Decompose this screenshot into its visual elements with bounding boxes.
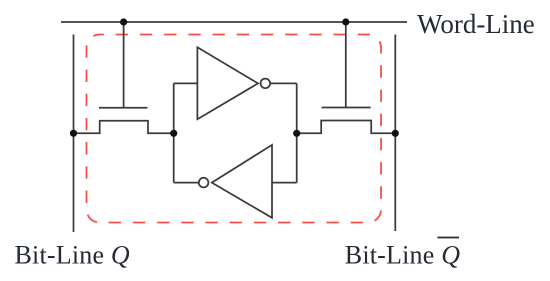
- wire inverter U1 input: [174, 82, 198, 84]
- word line: [61, 21, 407, 23]
- cell outline (red dashed rounded rect): [87, 35, 382, 223]
- wire inverter U2 output: [174, 182, 199, 184]
- junction word-line/M1 gate: [120, 18, 127, 25]
- transistor M2 gate wire: [345, 22, 347, 108]
- svg-text:Bit-Line Q: Bit-Line Q: [345, 241, 460, 270]
- transistor M2 channel + source/drain wires: [297, 121, 396, 134]
- inverter U1 triangle: [197, 47, 258, 119]
- wire node Qbar vertical (right internal): [296, 83, 298, 182]
- node Qbar junction: [293, 130, 300, 137]
- overbar of Qbar: [438, 237, 460, 239]
- junction bit-line Qbar / M2: [392, 130, 399, 137]
- node Q junction: [170, 130, 177, 137]
- inverter U2 bubble: [199, 178, 209, 188]
- inverter U1 bubble: [261, 79, 271, 89]
- bit line Q-bar (right vertical): [394, 35, 396, 232]
- svg-text:Bit-Line Q: Bit-Line Q: [15, 241, 130, 270]
- transistor M2 gate plate: [322, 107, 371, 109]
- transistor M1 gate wire: [123, 22, 125, 108]
- wire inverter U2 input: [272, 182, 297, 184]
- wire inverter U1 output: [270, 82, 297, 84]
- transistor M1 gate plate: [99, 107, 148, 109]
- bit line Q (left vertical): [73, 35, 75, 233]
- transistor M1 channel + source/drain wires: [74, 121, 174, 134]
- junction word-line/M2 gate: [342, 18, 349, 25]
- inverter U2 triangle: [212, 145, 272, 218]
- junction bit-line Q / M1: [70, 130, 77, 137]
- wire node Q vertical (left internal): [173, 83, 175, 182]
- svg-text:Word-Line: Word-Line: [417, 9, 535, 39]
